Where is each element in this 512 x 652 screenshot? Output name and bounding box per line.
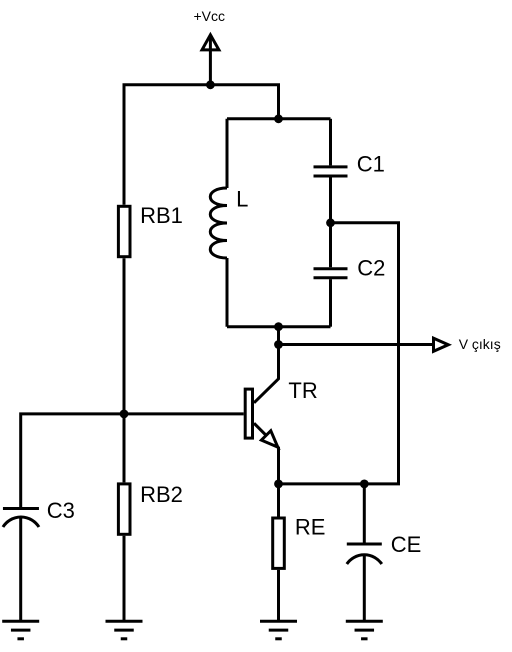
svg-text:TR: TR bbox=[288, 378, 317, 403]
svg-text:L: L bbox=[236, 187, 248, 212]
svg-text:C3: C3 bbox=[47, 498, 75, 523]
svg-text:RB2: RB2 bbox=[140, 482, 183, 507]
svg-text:RE: RE bbox=[295, 515, 326, 540]
svg-text:C2: C2 bbox=[357, 256, 385, 281]
svg-text:+Vcc: +Vcc bbox=[194, 8, 226, 24]
svg-text:C1: C1 bbox=[357, 152, 385, 177]
svg-text:CE: CE bbox=[391, 532, 422, 557]
svg-text:V çıkış: V çıkış bbox=[459, 336, 501, 352]
svg-text:RB1: RB1 bbox=[140, 203, 183, 228]
